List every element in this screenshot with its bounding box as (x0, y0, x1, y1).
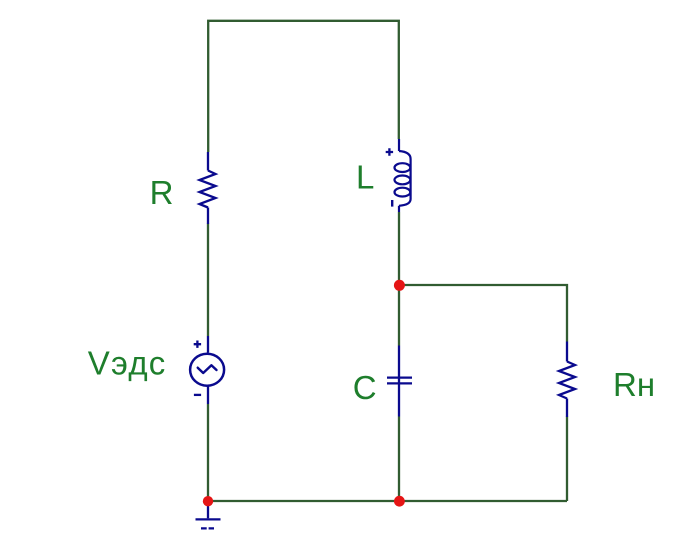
junction dot bottom-left (203, 496, 213, 506)
wire: top loop (left rail top, top horizontal, mid rail top) (208, 21, 399, 152)
svg-text:L: L (356, 158, 374, 195)
svg-text:Vэдс: Vэдс (88, 345, 167, 382)
wire: node A to right rail top (horizontal + corner down) (399, 285, 567, 342)
sine source Vэдс (190, 336, 224, 404)
capacitor C (387, 346, 412, 417)
svg-text:R: R (150, 174, 174, 211)
wire: bottom horizontal (208, 500, 567, 502)
inductor L (386, 139, 411, 212)
resistor Rн (559, 342, 575, 418)
ground (196, 501, 221, 528)
wire: mid rail below C to bottom (398, 417, 400, 502)
wire: left rail below source to bottom (207, 404, 209, 501)
junction dot bottom-mid (394, 496, 405, 507)
wire: right rail below Rн to bottom (566, 417, 568, 502)
svg-text:Rн: Rн (613, 366, 655, 403)
resistor R (200, 152, 216, 224)
svg-text:C: C (353, 369, 377, 406)
node A junction dot (394, 280, 405, 291)
wire: left rail between R and source (207, 224, 209, 337)
wire: mid rail between L and node A (398, 212, 400, 346)
